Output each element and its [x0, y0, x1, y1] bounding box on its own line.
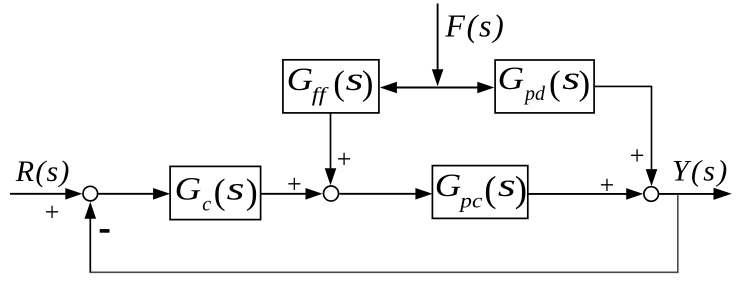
svg-text:+: + [600, 171, 615, 200]
summing junction S2 [324, 186, 339, 201]
label Gff(s) [287, 62, 374, 106]
wire: S1 to Gc [98, 193, 154, 195]
arrowhead into S1 bottom [85, 202, 97, 219]
svg-text:+: + [287, 169, 302, 198]
svg-text:(: ( [214, 172, 226, 212]
arrowhead into S3 [626, 188, 643, 200]
block Gc(s) [170, 166, 261, 219]
arrowhead F(s) onto crossbar [432, 69, 444, 86]
wire: Gc to S2 [261, 193, 306, 195]
wire: output tap down [677, 194, 679, 273]
summing junction S3 [644, 187, 659, 202]
label Gpd(s) [498, 61, 590, 105]
svg-text:+: + [337, 145, 352, 174]
svg-text:G: G [498, 61, 525, 97]
arrowhead output [714, 188, 732, 200]
svg-text:): ) [515, 169, 527, 210]
label Gpc(s) [435, 168, 527, 212]
wire: R(s) input line [10, 193, 67, 195]
block Gpc(s) [432, 166, 527, 219]
svg-text:): ) [579, 64, 591, 103]
svg-text:F(s): F(s) [444, 7, 505, 43]
wire: crossbar between Gff and Gpd [394, 87, 480, 89]
wire: Gpc to S3 [528, 193, 627, 195]
wire: feedback bottom run [90, 271, 679, 273]
svg-text:pd: pd [523, 83, 546, 105]
wire: S2 to Gpc [340, 193, 417, 195]
wire: Y(s) output line [659, 193, 715, 195]
svg-text:pc: pc [458, 191, 482, 213]
svg-text:s: s [498, 168, 516, 204]
arrowhead into S3 top [646, 169, 658, 186]
svg-text:s: s [227, 171, 245, 207]
minus sign at S1 feedback input [100, 229, 110, 233]
summing junction S1 [83, 186, 98, 201]
wire: Gff output down to S2 [330, 113, 332, 170]
svg-text:G: G [287, 62, 314, 98]
wire: feedback up into S1 [89, 215, 91, 272]
svg-text:Y(s): Y(s) [672, 155, 730, 188]
svg-text:): ) [362, 64, 374, 103]
wire: F(s) vertical drop [437, 4, 439, 71]
arrowhead into Gpc [415, 188, 432, 200]
arrowhead into Gpd left edge [477, 82, 494, 94]
arrowhead into Gc [153, 188, 170, 200]
svg-text:(: ( [484, 169, 496, 210]
arrowhead into S2 top [325, 168, 337, 185]
block Gff(s) [283, 60, 379, 113]
svg-text:R(s): R(s) [15, 155, 71, 188]
svg-text:G: G [175, 171, 202, 207]
svg-text:(: ( [549, 64, 561, 103]
svg-text:G: G [435, 168, 462, 204]
svg-text:s: s [562, 61, 580, 97]
svg-text:): ) [246, 172, 258, 212]
svg-text:s: s [346, 62, 364, 98]
label Gc(s) [175, 171, 258, 215]
block Gpd(s) [495, 60, 594, 113]
svg-text:+: + [45, 197, 60, 226]
arrowhead into summing junction S1 [65, 188, 82, 200]
svg-text:c: c [202, 194, 211, 216]
arrowhead into Gff right edge [380, 82, 397, 94]
svg-text:+: + [630, 141, 645, 170]
svg-text:(: ( [333, 64, 345, 103]
wire: Gpd output right then down to S3 [594, 86, 651, 170]
arrowhead into S2 [306, 188, 323, 200]
